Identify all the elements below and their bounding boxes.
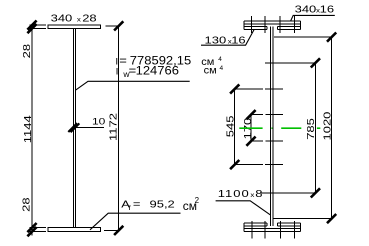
extension line bottom for 170: [251, 140, 283, 142]
svg-text:см: см: [204, 65, 217, 77]
svg-text:10: 10: [92, 117, 105, 127]
dim line 170: [250, 115, 252, 142]
dim line 785: [314, 63, 316, 193]
extension line bottom for 785: [261, 192, 315, 194]
svg-text:4: 4: [218, 56, 222, 63]
leader line for Af to bottom flange: [90, 213, 181, 230]
extension line top for 170: [251, 114, 283, 116]
extension lines top flange to left chain: [30, 25, 46, 29]
svg-text:340: 340: [51, 14, 73, 24]
svg-text:1100: 1100: [218, 189, 250, 199]
dim line 545: [234, 89, 236, 165]
svg-text:=: =: [119, 54, 127, 67]
extension lines bottom flange to left chain: [30, 228, 46, 232]
svg-text:1020: 1020: [323, 112, 333, 141]
svg-text:1172: 1172: [109, 113, 119, 141]
svg-text:124766: 124766: [136, 64, 179, 77]
web plate (thickness 10): [74, 28, 76, 227]
svg-text:785: 785: [306, 118, 316, 140]
top flange plate 340x28: [48, 25, 101, 29]
svg-text:16: 16: [231, 36, 245, 46]
extension line top for 545: [235, 88, 283, 90]
extension line top for 1020: [274, 36, 332, 38]
dim line 1020: [331, 37, 333, 219]
green centroid axis dashes: [239, 127, 320, 129]
svg-text:28: 28: [22, 197, 32, 211]
svg-text:28: 28: [22, 44, 32, 58]
ticks on 1172 dim line: [114, 21, 123, 235]
svg-text:130: 130: [205, 36, 227, 46]
bottom gauge lines through plate package: [252, 221, 295, 239]
extension lines to 1172 dim line: [104, 26, 119, 231]
tick marks on left chain: [27, 21, 36, 237]
svg-text:I: I: [116, 67, 119, 78]
svg-text:545: 545: [226, 116, 236, 138]
svg-text:2: 2: [195, 196, 200, 205]
right dimension line 1172: [118, 26, 120, 231]
svg-text:340: 340: [295, 5, 317, 15]
svg-text:=: =: [133, 200, 141, 210]
svg-text:1144: 1144: [23, 115, 33, 144]
bottom plate package: [244, 223, 300, 231]
extension line top for 785: [265, 62, 315, 64]
svg-text:95,2: 95,2: [150, 200, 175, 210]
leader for web thickness 10 with arrow: [75, 127, 104, 129]
svg-text:8: 8: [255, 189, 262, 199]
svg-text:16: 16: [320, 5, 334, 15]
top plate package 340x16: [244, 21, 300, 29]
bottom flange plate 340x28: [48, 228, 101, 232]
extension line bottom for 545: [235, 164, 283, 166]
extension line bottom for 1020: [274, 218, 332, 220]
svg-text:4: 4: [220, 65, 224, 72]
web plate 1100x8: [270, 27, 273, 226]
svg-text:28: 28: [82, 14, 96, 24]
top gauge lines through plate package: [251, 16, 294, 33]
leader line for I values to web: [75, 81, 189, 90]
svg-text:x: x: [77, 16, 82, 23]
left dimension chain line: [31, 25, 33, 236]
